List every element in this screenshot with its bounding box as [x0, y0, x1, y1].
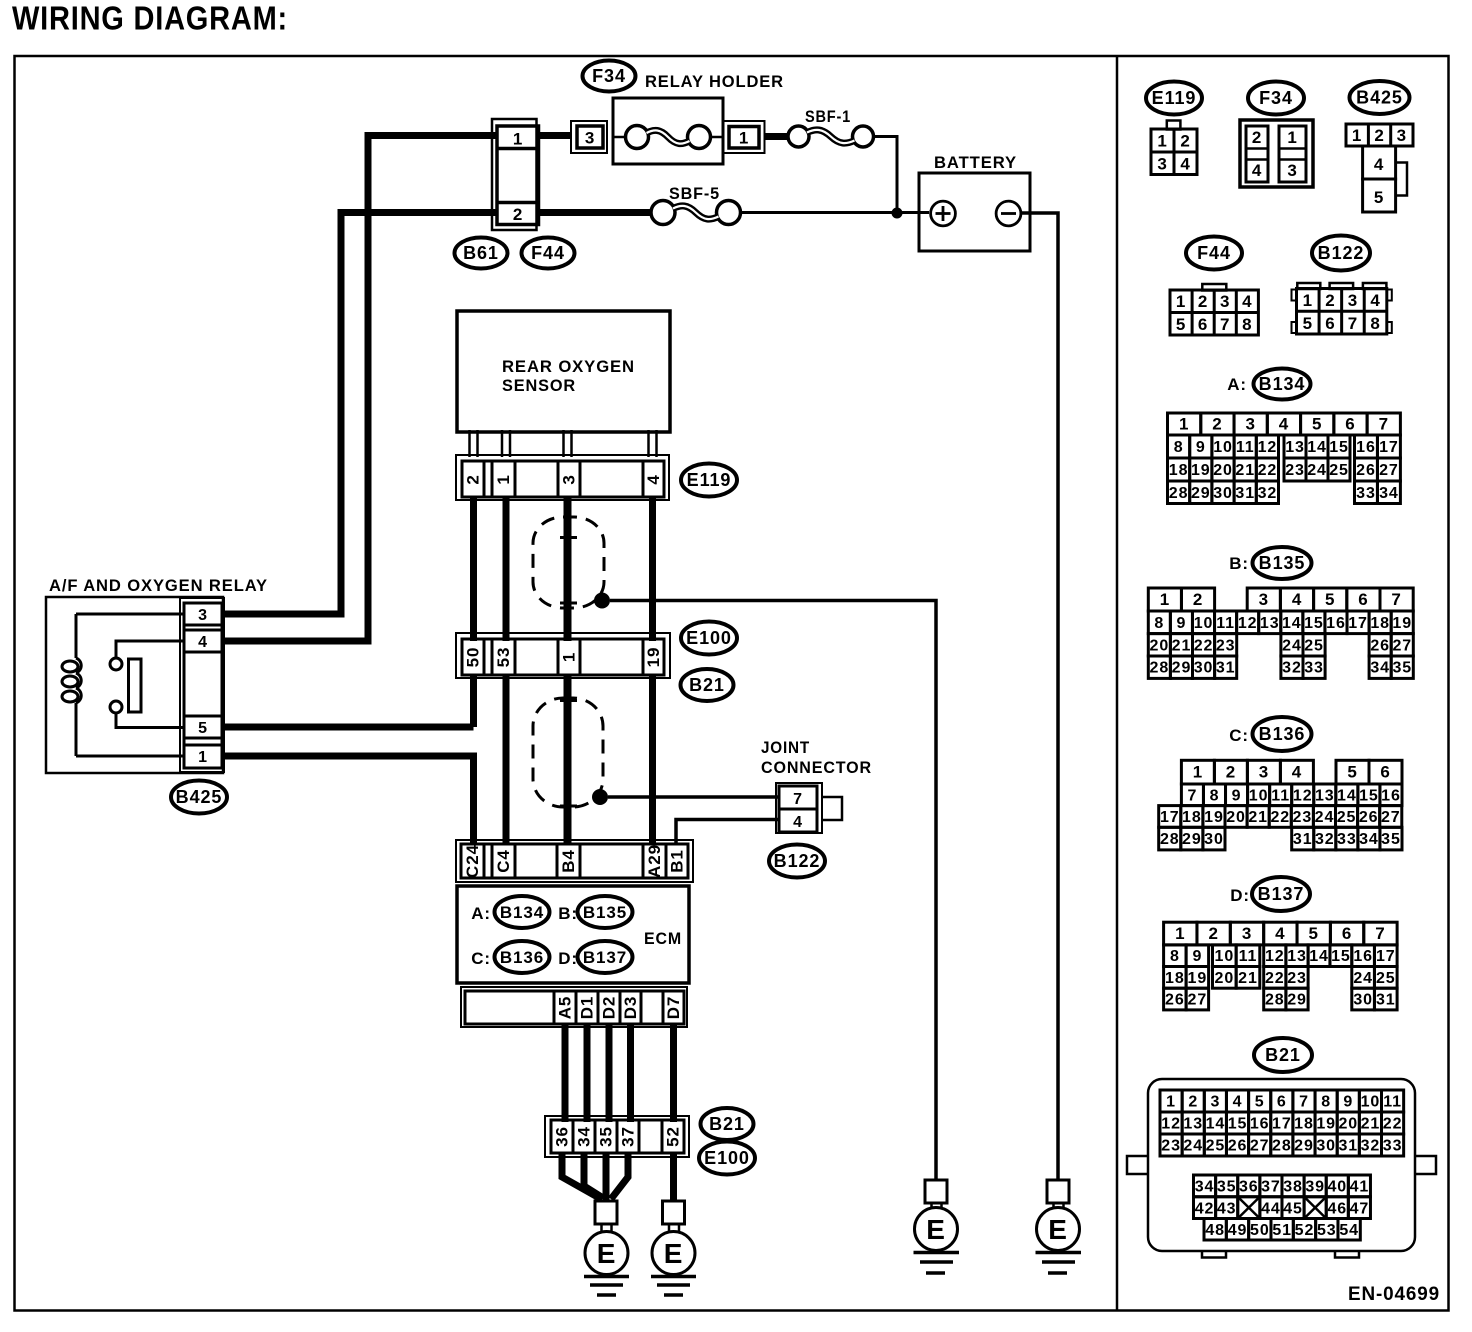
svg-text:42: 42: [1195, 1201, 1215, 1218]
svg-text:15: 15: [1228, 1116, 1248, 1133]
svg-text:3: 3: [1242, 924, 1252, 943]
svg-text:19: 19: [1188, 970, 1208, 987]
svg-text:13: 13: [1285, 439, 1305, 456]
svg-text:1: 1: [1287, 128, 1297, 147]
svg-text:29: 29: [1172, 660, 1192, 677]
svg-text:31: 31: [1216, 660, 1236, 677]
svg-text:25: 25: [1376, 970, 1396, 987]
ellipse label B425 left panel: [171, 781, 227, 814]
ground symbol E shield drain: [915, 1208, 958, 1251]
relay connector strip B425: [180, 598, 224, 772]
svg-text:B134: B134: [500, 903, 544, 922]
right panel connector B425 diagram: [1346, 81, 1413, 212]
svg-text:23: 23: [1285, 462, 1305, 479]
svg-text:EN-04699: EN-04699: [1348, 1283, 1440, 1305]
svg-text:D7: D7: [664, 996, 683, 1020]
svg-text:22: 22: [1270, 809, 1290, 826]
ellipse label F34: [583, 61, 636, 92]
ground terminal square battery negative: [1047, 1180, 1069, 1203]
wire E119-1 to E100-53: [503, 497, 510, 641]
svg-text:18: 18: [1370, 615, 1390, 632]
svg-text:4: 4: [644, 474, 663, 484]
svg-text:1: 1: [1352, 126, 1362, 145]
svg-text:1: 1: [1303, 291, 1313, 310]
svg-text:10: 10: [1194, 615, 1214, 632]
svg-text:41: 41: [1350, 1178, 1370, 1195]
svg-text:39: 39: [1305, 1178, 1325, 1195]
svg-text:7: 7: [793, 791, 803, 808]
wire E119-2 to E100-50: [470, 497, 477, 641]
connector strip E119: [456, 455, 669, 500]
wire ECM A5 to B21-36: [562, 1024, 569, 1122]
right panel connector B122 diagram: [1292, 236, 1392, 335]
svg-text:17: 17: [1272, 1116, 1292, 1133]
svg-text:16: 16: [1353, 948, 1373, 965]
svg-text:21: 21: [1235, 462, 1255, 479]
svg-text:34: 34: [1359, 831, 1379, 848]
svg-text:9: 9: [1177, 615, 1187, 632]
svg-text:2: 2: [513, 205, 523, 224]
svg-text:35: 35: [1217, 1178, 1237, 1195]
svg-text:8: 8: [1210, 787, 1220, 804]
svg-text:E100: E100: [686, 628, 732, 648]
svg-text:1: 1: [739, 129, 749, 148]
connector strip E100/B21: [456, 633, 670, 678]
svg-text:20: 20: [1338, 1116, 1358, 1133]
svg-text:12: 12: [1265, 948, 1285, 965]
wire E100-50 to ECM via relay pin5: down segment: [470, 675, 477, 727]
relay armature bar: [129, 659, 142, 712]
svg-text:JOINT: JOINT: [761, 738, 810, 757]
svg-text:B122: B122: [1318, 243, 1365, 263]
svg-text:1: 1: [1160, 590, 1170, 609]
wire ECM D2 to B21-35: [606, 1024, 613, 1122]
svg-text:6: 6: [1358, 590, 1368, 609]
relay outer box: [46, 597, 223, 773]
svg-text:33: 33: [1356, 485, 1376, 502]
svg-text:23: 23: [1216, 637, 1236, 654]
shield drain wire to joint connector pin 7: [608, 795, 779, 799]
svg-text:4: 4: [1370, 291, 1380, 310]
ECM label D: B137: [578, 941, 633, 973]
svg-text:21: 21: [1238, 970, 1258, 987]
svg-text:3: 3: [585, 129, 595, 148]
svg-text:8: 8: [1154, 615, 1164, 632]
svg-text:F44: F44: [1197, 243, 1231, 263]
svg-text:4: 4: [1292, 590, 1302, 609]
svg-text:21: 21: [1248, 809, 1268, 826]
svg-text:13: 13: [1183, 1116, 1203, 1133]
svg-text:16: 16: [1326, 615, 1346, 632]
svg-text:2: 2: [1374, 126, 1384, 145]
svg-text:14: 14: [1282, 615, 1302, 632]
svg-text:16: 16: [1381, 787, 1401, 804]
svg-text:28: 28: [1150, 660, 1170, 677]
panel separator line: [1116, 56, 1119, 1311]
svg-text:5: 5: [1176, 315, 1186, 334]
svg-text:28: 28: [1272, 1138, 1292, 1155]
svg-text:29: 29: [1294, 1138, 1314, 1155]
svg-text:23: 23: [1161, 1138, 1181, 1155]
svg-text:24: 24: [1282, 637, 1302, 654]
svg-text:20: 20: [1215, 970, 1235, 987]
svg-text:11: 11: [1239, 948, 1258, 965]
right panel connector F44 diagram: [1170, 237, 1258, 336]
svg-text:7: 7: [1220, 315, 1230, 334]
svg-text:46: 46: [1327, 1201, 1347, 1218]
ellipse label B21 middle: [681, 669, 734, 701]
svg-text:1: 1: [1175, 924, 1185, 943]
svg-text:37: 37: [1261, 1178, 1281, 1195]
svg-text:37: 37: [619, 1126, 638, 1147]
svg-text:3: 3: [1157, 155, 1167, 174]
svg-text:28: 28: [1160, 831, 1180, 848]
connector B61/F44 inline connector: [492, 119, 537, 230]
relay coil wire bottom to pin 1: [76, 755, 184, 758]
svg-text:7: 7: [1348, 314, 1358, 333]
svg-text:C:: C:: [1229, 726, 1249, 745]
svg-text:7: 7: [1391, 590, 1401, 609]
wire relay holder to SBF-1: [765, 133, 788, 140]
svg-text:6: 6: [1198, 315, 1208, 334]
svg-text:F44: F44: [531, 243, 565, 263]
connector strip ECM top: [456, 840, 693, 882]
svg-text:5: 5: [1309, 924, 1319, 943]
svg-text:D:: D:: [558, 949, 578, 968]
svg-text:18: 18: [1169, 462, 1189, 479]
svg-text:E: E: [597, 1238, 617, 1269]
svg-text:SENSOR: SENSOR: [502, 376, 576, 395]
svg-text:4: 4: [1252, 161, 1262, 180]
svg-text:6: 6: [1342, 924, 1352, 943]
svg-text:30: 30: [1204, 831, 1224, 848]
shield symbol upper dashed: [533, 517, 604, 608]
svg-text:3: 3: [198, 607, 208, 624]
svg-text:B21: B21: [689, 675, 725, 695]
svg-text:2: 2: [1188, 1094, 1198, 1111]
svg-text:B425: B425: [1356, 88, 1403, 108]
svg-text:35: 35: [597, 1126, 616, 1147]
svg-text:F34: F34: [592, 66, 626, 86]
svg-text:3: 3: [1287, 161, 1297, 180]
svg-text:2: 2: [1325, 291, 1335, 310]
svg-text:14: 14: [1309, 948, 1329, 965]
svg-text:5: 5: [1303, 314, 1313, 333]
wire B61/F44 pin1 to relay pin4: [224, 136, 497, 642]
svg-text:3: 3: [1397, 126, 1407, 145]
svg-text:1: 1: [1157, 132, 1167, 151]
ground terminal square shield drain: [925, 1180, 947, 1203]
svg-text:8: 8: [1321, 1094, 1331, 1111]
right panel connector B:B135 diagram: [1148, 547, 1413, 678]
svg-text:5: 5: [1325, 590, 1335, 609]
svg-text:20: 20: [1150, 637, 1170, 654]
svg-text:3: 3: [1245, 415, 1255, 434]
connector B61/F44 pin 2 cell: [497, 201, 539, 205]
svg-text:E: E: [1048, 1214, 1068, 1245]
shield symbol lower dashed: [533, 698, 603, 807]
svg-text:19: 19: [1316, 1116, 1336, 1133]
svg-text:8: 8: [1174, 439, 1184, 456]
svg-text:15: 15: [1304, 615, 1324, 632]
svg-text:CONNECTOR: CONNECTOR: [761, 758, 872, 777]
svg-text:2: 2: [1193, 590, 1203, 609]
svg-text:5: 5: [1374, 188, 1384, 207]
svg-text:REAR OXYGEN: REAR OXYGEN: [502, 357, 635, 376]
wire E100-53 to ECM C4: [503, 675, 510, 844]
svg-text:15: 15: [1329, 439, 1349, 456]
svg-text:4: 4: [1180, 155, 1190, 174]
svg-text:9: 9: [1232, 787, 1242, 804]
svg-text:1: 1: [1179, 415, 1189, 434]
wire SBF-1 to battery junction: [873, 137, 898, 212]
wire B61/F44 pin2 to relay pin3: [224, 213, 497, 615]
svg-text:32: 32: [1361, 1138, 1381, 1155]
svg-text:32: 32: [1315, 831, 1335, 848]
svg-text:12: 12: [1238, 615, 1258, 632]
relay holder connector 3 box: [571, 121, 607, 153]
svg-text:2: 2: [1212, 415, 1222, 434]
joint connector box: [776, 783, 822, 833]
svg-text:7: 7: [1375, 924, 1385, 943]
svg-text:3: 3: [560, 474, 579, 484]
svg-text:51: 51: [1272, 1222, 1292, 1239]
relay switch contact lower: [110, 701, 122, 713]
rear oxygen sensor box: [457, 311, 670, 432]
svg-text:A:: A:: [471, 904, 491, 923]
svg-text:10: 10: [1213, 439, 1233, 456]
svg-text:27: 27: [1188, 992, 1208, 1009]
svg-text:22: 22: [1194, 637, 1214, 654]
svg-text:28: 28: [1265, 992, 1285, 1009]
wire ECM D1 to B21-34: [584, 1024, 591, 1122]
wire SBF-5 to junction: [739, 211, 929, 214]
svg-text:3: 3: [1220, 292, 1230, 311]
svg-text:5: 5: [1312, 415, 1322, 434]
wire B61/F44 pin2 to SBF-5: [539, 209, 652, 216]
svg-text:34: 34: [1379, 485, 1399, 502]
fuse SBF-5: [651, 201, 675, 225]
svg-text:3: 3: [1259, 590, 1269, 609]
relay coil: [75, 614, 78, 658]
svg-text:BATTERY: BATTERY: [934, 153, 1017, 172]
svg-text:22: 22: [1383, 1116, 1403, 1133]
svg-text:5: 5: [1347, 763, 1357, 782]
svg-text:13: 13: [1260, 615, 1280, 632]
svg-text:52: 52: [1295, 1222, 1315, 1239]
svg-text:12: 12: [1293, 787, 1313, 804]
ellipse label B122 left panel: [769, 845, 825, 878]
svg-text:23: 23: [1293, 809, 1313, 826]
svg-text:14: 14: [1337, 787, 1357, 804]
svg-text:4: 4: [198, 634, 208, 651]
right panel connector E119 diagram: [1146, 82, 1202, 175]
svg-text:43: 43: [1217, 1201, 1237, 1218]
svg-text:6: 6: [1277, 1094, 1287, 1111]
svg-text:35: 35: [1392, 660, 1412, 677]
ground symbol E left: [585, 1232, 628, 1275]
svg-text:30: 30: [1353, 992, 1373, 1009]
svg-text:3: 3: [1259, 763, 1269, 782]
svg-text:15: 15: [1331, 948, 1351, 965]
svg-text:10: 10: [1361, 1094, 1381, 1111]
svg-text:35: 35: [1381, 831, 1401, 848]
svg-text:6: 6: [1345, 415, 1355, 434]
svg-text:26: 26: [1356, 462, 1376, 479]
svg-text:20: 20: [1226, 809, 1246, 826]
svg-text:B21: B21: [1265, 1045, 1301, 1065]
ECM box: [457, 886, 689, 983]
svg-text:19: 19: [644, 647, 663, 668]
svg-text:11: 11: [1271, 787, 1290, 804]
svg-text:24: 24: [1307, 462, 1327, 479]
svg-text:33: 33: [1304, 660, 1324, 677]
svg-text:14: 14: [1206, 1116, 1226, 1133]
svg-text:26: 26: [1359, 809, 1379, 826]
svg-text:8: 8: [1170, 948, 1180, 965]
joint connector bridge bracket: [822, 797, 842, 820]
svg-text:7: 7: [1299, 1094, 1309, 1111]
svg-text:50: 50: [464, 647, 483, 668]
svg-text:1: 1: [1166, 1094, 1176, 1111]
svg-text:A/F AND OXYGEN RELAY: A/F AND OXYGEN RELAY: [49, 576, 268, 595]
svg-text:4: 4: [1374, 155, 1384, 174]
svg-text:34: 34: [1370, 660, 1390, 677]
ellipse label B21 bottom: [701, 1108, 754, 1140]
wire joint connector 4 to ECM B1: [676, 820, 779, 845]
svg-text:2: 2: [1180, 132, 1190, 151]
svg-text:2: 2: [1208, 924, 1218, 943]
svg-text:9: 9: [1192, 948, 1202, 965]
svg-text:2: 2: [1252, 128, 1262, 147]
svg-text:4: 4: [793, 814, 803, 831]
svg-text:D3: D3: [621, 996, 640, 1020]
shield drain wire to ground: [610, 601, 936, 1181]
ground funnel wires from 36 34 35 37: [562, 1153, 601, 1199]
svg-text:27: 27: [1392, 637, 1412, 654]
svg-text:21: 21: [1172, 637, 1192, 654]
svg-text:17: 17: [1379, 439, 1399, 456]
svg-text:4: 4: [1242, 292, 1252, 311]
svg-text:18: 18: [1294, 1116, 1314, 1133]
svg-text:1: 1: [1176, 292, 1186, 311]
svg-text:22: 22: [1265, 970, 1285, 987]
svg-text:13: 13: [1315, 787, 1335, 804]
svg-text:25: 25: [1329, 462, 1349, 479]
right panel connector D:B137 diagram: [1164, 877, 1398, 1010]
svg-text:11: 11: [1383, 1094, 1402, 1111]
svg-text:WIRING DIAGRAM:: WIRING DIAGRAM:: [12, 1, 288, 38]
svg-text:4: 4: [1279, 415, 1289, 434]
svg-text:3: 3: [1348, 291, 1358, 310]
svg-text:26: 26: [1165, 992, 1185, 1009]
relay holder connector 1 box: [724, 121, 765, 153]
ellipse label B61: [455, 238, 508, 269]
svg-text:36: 36: [553, 1126, 572, 1147]
svg-text:11: 11: [1216, 615, 1235, 632]
right panel connector B21 diagram: [1127, 1038, 1436, 1258]
svg-text:B1: B1: [668, 849, 687, 873]
svg-text:A:: A:: [1227, 375, 1247, 394]
svg-text:SBF-1: SBF-1: [805, 107, 851, 126]
svg-text:B137: B137: [1258, 884, 1305, 904]
svg-text:25: 25: [1304, 637, 1324, 654]
battery positive terminal: [931, 201, 956, 226]
relay coil wire top to pin 3: [76, 613, 184, 616]
svg-text:SBF-5: SBF-5: [669, 184, 720, 203]
junction dot at battery positive: [892, 208, 903, 219]
svg-text:18: 18: [1182, 809, 1202, 826]
svg-text:1: 1: [1193, 763, 1203, 782]
ECM label A: B134: [495, 896, 550, 928]
ground terminal square left: [595, 1201, 617, 1224]
svg-text:8: 8: [1370, 314, 1380, 333]
svg-text:19: 19: [1204, 809, 1224, 826]
wire E100-19 to ECM A29: [649, 675, 656, 844]
svg-text:22: 22: [1258, 462, 1278, 479]
svg-text:C4: C4: [494, 849, 513, 873]
svg-text:28: 28: [1169, 485, 1189, 502]
svg-text:31: 31: [1376, 992, 1396, 1009]
wire E119-4 to E100-19: [649, 497, 656, 641]
svg-text:10: 10: [1215, 948, 1235, 965]
svg-text:27: 27: [1379, 462, 1399, 479]
connector strip ECM bottom: [461, 987, 687, 1027]
wire relay pin1 to ECM C24: [224, 756, 474, 844]
svg-text:RELAY HOLDER: RELAY HOLDER: [645, 72, 784, 91]
shielded wire E119-3 to E100-1: [564, 497, 572, 641]
ground terminal square second: [663, 1201, 685, 1224]
svg-text:B4: B4: [559, 849, 578, 873]
svg-text:6: 6: [1380, 763, 1390, 782]
connector B61/F44 pin 1 cell: [497, 147, 539, 151]
svg-text:32: 32: [1282, 660, 1302, 677]
svg-text:4: 4: [1233, 1094, 1243, 1111]
svg-text:49: 49: [1228, 1222, 1248, 1239]
svg-text:D2: D2: [600, 996, 619, 1020]
relay holder F34 fuse box: [613, 98, 723, 164]
svg-text:14: 14: [1307, 439, 1327, 456]
connector strip B21/E100 bottom: [545, 1116, 689, 1157]
svg-text:E100: E100: [704, 1148, 750, 1168]
svg-text:D1: D1: [578, 996, 597, 1020]
svg-text:26: 26: [1370, 637, 1390, 654]
svg-text:12: 12: [1258, 439, 1278, 456]
svg-text:33: 33: [1337, 831, 1357, 848]
svg-text:7: 7: [1188, 787, 1198, 804]
svg-text:16: 16: [1356, 439, 1376, 456]
wire relay pin5 horizontal: [224, 724, 474, 731]
wire ECM D3 to B21-37: [627, 1024, 634, 1122]
svg-text:38: 38: [1283, 1178, 1303, 1195]
svg-text:17: 17: [1376, 948, 1396, 965]
svg-text:33: 33: [1383, 1138, 1403, 1155]
battery negative terminal: [996, 201, 1021, 226]
shielded wire E100-1 to ECM B4: [564, 675, 572, 844]
svg-text:30: 30: [1316, 1138, 1336, 1155]
svg-text:B136: B136: [1259, 724, 1306, 744]
svg-text:24: 24: [1315, 809, 1335, 826]
svg-text:25: 25: [1206, 1138, 1226, 1155]
svg-text:C24: C24: [463, 844, 482, 878]
svg-text:16: 16: [1250, 1116, 1270, 1133]
svg-text:B135: B135: [1259, 553, 1306, 573]
svg-text:17: 17: [1160, 809, 1180, 826]
svg-text:34: 34: [575, 1126, 594, 1147]
svg-text:29: 29: [1191, 485, 1211, 502]
sensor stub wires to E119: [468, 430, 471, 457]
fuse inside relay holder: [613, 136, 626, 139]
